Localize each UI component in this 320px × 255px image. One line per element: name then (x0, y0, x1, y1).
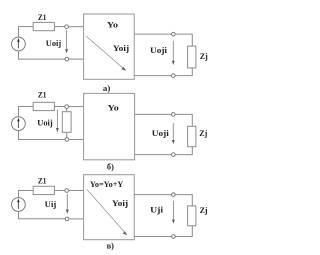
voltage arrow Uoji (down), fig a (172, 41, 175, 65)
wire: fig a output top terminal to Zj (175, 34, 192, 46)
resistor Zj, fig v (188, 206, 196, 226)
wire: fig b shunt stub top (66, 108, 68, 111)
svg-text:Yo: Yo (107, 20, 118, 30)
resistor Zj, fig a (188, 46, 196, 68)
svg-text:Uoij: Uoij (37, 117, 53, 127)
svg-text:Uoji: Uoji (150, 45, 168, 55)
wire: fig v Zj bottom to bottom wire (175, 226, 192, 237)
wire: fig b output bottom terminal to box (135, 154, 172, 156)
svg-text:Uji: Uji (150, 204, 164, 214)
svg-text:Uij: Uij (45, 199, 57, 209)
node: fig v input bottom terminal (65, 217, 69, 221)
wire: fig b Zj bottom to bottom wire (175, 147, 192, 155)
voltage arrow Uji (down), fig v (172, 201, 175, 224)
wire: fig a Zj bottom to bottom wire (175, 68, 192, 76)
voltage arrow Uoij (down), fig a (65, 30, 68, 53)
node: fig a output bottom terminal (172, 74, 176, 78)
wire: fig b Z1 to top terminal (54, 106, 65, 108)
svg-text:б): б) (107, 162, 114, 171)
svg-text:Yo=Yo+Y: Yo=Yo+Y (90, 179, 124, 189)
wire: fig v box right top to right rail (134, 194, 171, 196)
voltage arrow Uoji (down), fig b (172, 123, 175, 144)
voltage arrow Uoij (down), fig b (56, 110, 59, 133)
wire: fig a top wire from rail to Z1 (18, 26, 33, 28)
wire: fig b left rail bottom (19, 131, 65, 140)
node: fig b input top terminal (65, 105, 69, 109)
svg-text:Z1: Z1 (38, 89, 47, 99)
wire: fig a output bottom terminal to box (134, 75, 171, 77)
voltage arrow Uij (down), fig v (66, 194, 69, 214)
node: fig b output bottom terminal (172, 153, 176, 157)
wire: fig v bottom terminal to box left (69, 218, 84, 220)
wire: fig b bottom terminal to box left (69, 139, 84, 141)
svg-text:Uoij: Uoij (46, 38, 62, 48)
wire: fig v Z1 to top terminal (54, 190, 65, 192)
wire: fig b left rail top (18, 107, 20, 117)
resistor Zj, fig b (188, 126, 196, 146)
two-port network box Yo, fig a (84, 14, 135, 79)
resistor Z1, fig v (33, 186, 54, 194)
wire: fig b shunt stub bottom (66, 132, 68, 137)
wire: fig v left rail top (18, 191, 20, 198)
node: fig v output bottom terminal (172, 235, 176, 239)
two-port network box Yo, fig b (84, 93, 135, 159)
wire: fig v left rail bottom (19, 211, 66, 218)
current source I1 (circle with up arrow), fig b (12, 117, 26, 131)
node: fig v input top terminal (65, 189, 69, 193)
svg-text:Zj: Zj (200, 205, 208, 215)
transfer arrow Yoij inside box, fig v (87, 189, 127, 235)
current source I1 (circle with up arrow), fig v (12, 198, 26, 212)
svg-text:Zj: Zj (200, 51, 208, 61)
wire: fig v terminal to box left top (69, 190, 84, 192)
current source I1 (circle with up arrow), fig a (12, 37, 26, 51)
shunt admittance resistor box, fig b (62, 112, 71, 133)
two-port network box Yo'=Yo+Y, fig v (84, 175, 135, 240)
wire: fig a left rail top (source to top wire) (18, 27, 20, 38)
wire: fig v output bottom terminal to box (134, 236, 171, 238)
node: fig a input top terminal (65, 25, 69, 29)
svg-text:в): в) (107, 242, 115, 251)
svg-text:Yoij: Yoij (112, 198, 128, 208)
svg-text:Uoji: Uoji (152, 128, 170, 138)
wire: fig a Z1 to left-top terminal (54, 26, 65, 28)
wire: fig b output top terminal to Zj (175, 114, 192, 126)
node: fig a input bottom terminal (65, 57, 69, 61)
wire: fig b box right top to right rail (135, 113, 172, 115)
svg-text:Yo: Yo (108, 103, 119, 113)
resistor Z1, fig a (33, 22, 54, 30)
resistor Z1, fig b (33, 102, 54, 110)
svg-text:Yoij: Yoij (113, 43, 129, 53)
node: fig b output top terminal (172, 113, 176, 117)
transfer arrow Yoij inside box, fig a (86, 36, 126, 71)
wire: fig a box right top to right rail (134, 33, 171, 35)
wire: fig a bottom terminal to box left (69, 58, 84, 60)
wire: fig a terminal to box left top (68, 26, 83, 28)
svg-text:Z1: Z1 (38, 175, 47, 185)
wire: fig v top wire to Z1 (18, 190, 33, 192)
wire: fig v output top terminal to Zj (175, 195, 192, 206)
wire: fig b top wire to Z1 (18, 106, 33, 108)
wire: fig a left rail bottom (source to bottom wire) (19, 51, 65, 59)
node: fig v output top terminal (172, 193, 176, 197)
node: fig b input bottom terminal (65, 138, 69, 142)
svg-text:Zj: Zj (199, 128, 207, 138)
node: fig a output top terminal (172, 32, 176, 36)
wire: fig b terminal to box left top (69, 106, 84, 108)
svg-text:а): а) (103, 83, 111, 93)
svg-text:Z1: Z1 (38, 12, 47, 22)
